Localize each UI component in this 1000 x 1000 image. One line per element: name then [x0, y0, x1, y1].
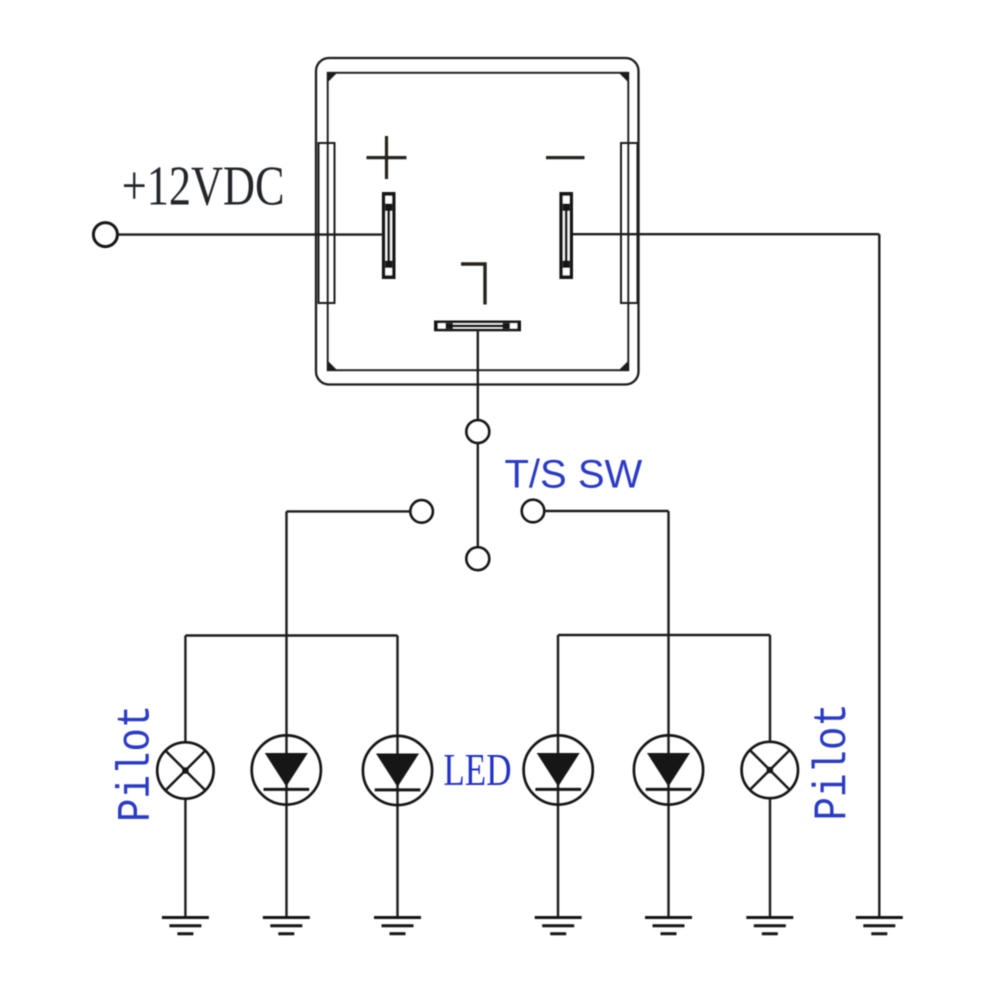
- svg-text:+12VDC: +12VDC: [122, 154, 285, 216]
- terminal circle +12VDC input: [93, 223, 117, 247]
- wire left branch down through LED to ground: [285, 511, 287, 917]
- wire +12VDC to + blade: [118, 233, 382, 235]
- ground LED D1: [263, 918, 310, 934]
- relay inner corner mark top-right: [619, 73, 629, 83]
- ground pilot left: [162, 918, 209, 934]
- wire left throw to left branch: [287, 510, 411, 512]
- switch pole contact circle bottom: [466, 547, 489, 570]
- wire left pilot upper lead: [184, 636, 186, 743]
- switch pole contact circle top: [466, 420, 489, 443]
- relay inner corner mark bottom-left: [328, 361, 338, 371]
- wire left outer LED down to ground: [396, 636, 398, 918]
- wire left pilot lower lead to ground: [184, 798, 186, 917]
- relay left side tab: [319, 143, 335, 303]
- ground negative return: [856, 918, 903, 934]
- switch arm wire: [477, 443, 479, 547]
- svg-text:T/S SW: T/S SW: [505, 453, 643, 497]
- relay terminal blade - (pin B): [559, 192, 573, 279]
- ground LED D3: [535, 918, 582, 934]
- relay flasher body inner case: [328, 73, 629, 370]
- relay terminal blade L (pin L): [434, 321, 521, 332]
- LED D4 right outer: [634, 735, 703, 804]
- switch throw contact circle left: [410, 500, 433, 523]
- wire left bus: [185, 634, 397, 636]
- wire L blade down to switch: [477, 331, 479, 420]
- pilot lamp right: [742, 742, 798, 798]
- LED D2 left outer: [363, 736, 432, 805]
- switch throw contact circle right: [522, 500, 545, 523]
- minus mark -: [546, 156, 585, 159]
- svg-text:LED: LED: [443, 745, 511, 796]
- relay inner corner mark top-left: [328, 73, 338, 83]
- wire right pilot upper lead: [769, 635, 771, 743]
- wire right side down to ground: [878, 234, 880, 917]
- relay flasher body outer case: [316, 58, 639, 385]
- relay right side tab: [621, 143, 638, 303]
- relay inner corner mark bottom-right: [619, 361, 629, 371]
- wire right inner LED down to ground: [557, 635, 559, 918]
- wire right throw to right branch: [544, 510, 668, 512]
- label +12VDC: [122, 154, 285, 216]
- relay terminal blade + (pin X): [382, 192, 396, 279]
- pilot lamp left: [157, 742, 213, 798]
- ground LED D4: [645, 918, 692, 934]
- LED D1 left inner: [252, 735, 321, 804]
- wire right bus: [558, 634, 770, 636]
- wire - blade to right corner: [573, 233, 879, 235]
- plus mark +: [367, 136, 407, 179]
- ground pilot right: [746, 918, 793, 934]
- ground LED D2: [374, 918, 421, 934]
- svg-text:Pilot: Pilot: [110, 705, 163, 822]
- wire right pilot lower lead to ground: [769, 798, 771, 917]
- L load mark: [461, 264, 485, 305]
- wire right branch down through LED to ground: [667, 511, 669, 918]
- LED D3 right inner: [524, 735, 593, 804]
- svg-text:Pilot: Pilot: [806, 703, 859, 820]
